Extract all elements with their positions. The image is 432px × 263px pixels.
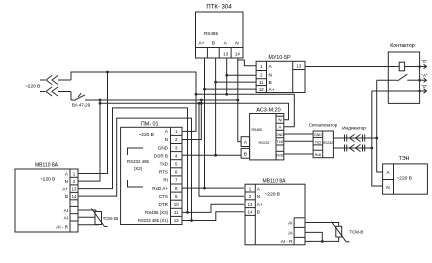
svg-text:ВА 47-29: ВА 47-29 (72, 103, 91, 108)
svg-text:ТЭН: ТЭН (399, 156, 410, 162)
svg-text:МВ110 8А: МВ110 8А (35, 163, 59, 169)
junction neutral at ПМ2 riser (200, 99, 203, 102)
svg-text:N: N (257, 194, 260, 199)
annunciator U4 Сигнализатор with GND TxD RxD RS232 (309, 123, 338, 158)
indicator label Индикатор (342, 126, 366, 132)
wire МВ110-bottom pin2 to neutral (198, 102, 244, 196)
wire phase branch to АС3 A (196, 94, 294, 126)
svg-text:RTS: RTS (159, 170, 168, 175)
wire neutral down to МВ110-left pin 2 (78, 100, 100, 181)
svg-text:Контактор: Контактор (390, 43, 415, 49)
wire МВ110-left AI-R to sensor bottom (78, 224, 98, 226)
svg-text:RS232 485: RS232 485 (127, 159, 150, 164)
contactor coil (388, 62, 419, 71)
svg-text:TxD: TxD (277, 140, 284, 144)
svg-text:13: 13 (72, 187, 77, 192)
svg-text:ПМ- 01: ПМ- 01 (141, 122, 159, 128)
svg-text:~220 В: ~220 В (40, 177, 55, 183)
svg-text:N: N (269, 73, 273, 79)
contactor bottom wire (372, 90, 420, 92)
svg-text:12: 12 (259, 87, 264, 92)
mains label ~220 В (25, 84, 40, 90)
svg-text:МУ10-5Р: МУ10-5Р (268, 55, 291, 61)
controller U1 ПТК-304 with terminals A+ B A N and cells 13 14 (196, 5, 244, 59)
svg-text:RxD A+: RxD A+ (152, 186, 168, 191)
GSM modem U5 ПМ-01 with pins 1-12 and RS232/485 ports (121, 122, 182, 225)
svg-text:DTR: DTR (159, 202, 169, 207)
svg-text:N: N (386, 185, 390, 191)
analog input module U6 МВ110-8А (left) pins 1 2 13 14 AI AI AI-R (15, 163, 78, 233)
wire ПТК N down to АС3 A cell (238, 58, 241, 142)
junction neutral long line at ПМ pin2 riser (200, 102, 203, 105)
mains connector upper chevrons (40, 76, 71, 85)
svg-text:RS232 485 (Х1): RS232 485 (Х1) (138, 218, 169, 223)
wire МВ110-left B wrap line to ПМ pin 12 net (78, 118, 192, 220)
contactor switch contact (377, 74, 420, 81)
wire RS232 TxD АС3 to Сигнализатор (284, 140, 313, 142)
wire МВ110-bottom AI2 down (305, 232, 322, 241)
svg-text:~220 В: ~220 В (265, 191, 280, 197)
svg-text:RxD: RxD (276, 154, 283, 158)
svg-text:A+: A+ (269, 87, 275, 93)
svg-text:A+: A+ (257, 202, 263, 207)
wire neutral from breaker across (87, 99, 238, 101)
wire B branch to МУ pin 11 (216, 81, 257, 83)
svg-text:TxD: TxD (160, 161, 169, 166)
svg-text:“0”: “0” (422, 59, 428, 64)
indicator cable upper connector (345, 134, 365, 141)
wire ПТК A down to phase line (226, 58, 228, 94)
wire МВ110-left AI1 to sensor (78, 210, 96, 212)
svg-text:GND: GND (314, 133, 322, 137)
svg-text:11: 11 (259, 80, 264, 85)
svg-text:ПТК- 304: ПТК- 304 (206, 5, 232, 11)
svg-text:AI: AI (288, 230, 292, 235)
junction A+ to ПМ pin 8 (203, 88, 206, 91)
wire contactor bottom to ТЭН N (372, 91, 383, 186)
temperature sensor RK2 ТСМ-В (332, 222, 364, 242)
svg-text:~220 В: ~220 В (397, 175, 412, 181)
junction wrap A+ at ПМ pin 11 line (186, 211, 189, 214)
svg-text:N: N (278, 118, 281, 123)
junction neutral at x100 (99, 99, 102, 102)
svg-text:AI: AI (288, 220, 292, 225)
output module U2 МУ10-5Р pins 1 2 11 12 (A N B A+) and output cell 13 (256, 55, 305, 93)
svg-text:~220 В: ~220 В (25, 84, 40, 90)
wire phase from breaker input to ПМ-01 pin 1 (71, 72, 196, 131)
contactor K1 box (388, 43, 419, 103)
temperature sensor RK1 ТСМ-1В (92, 209, 119, 227)
svg-text:“А”: “А” (422, 73, 428, 78)
svg-text:AI - R: AI - R (281, 239, 293, 244)
junction A to МУ pin 2 (225, 74, 228, 77)
indicator cable lower wire (333, 147, 373, 150)
svg-text:10: 10 (174, 202, 179, 207)
svg-text:RI: RI (163, 178, 168, 183)
svg-text:12: 12 (174, 218, 179, 223)
svg-text:14: 14 (235, 51, 240, 56)
wire contactor switch down to ТЭН A (377, 80, 383, 172)
wire phase down to МВ110-left pin 1 (78, 72, 108, 174)
indicator cable lower connector (345, 144, 365, 151)
svg-text:B: B (244, 151, 247, 157)
wire ПМ pin 8 RxD A+ line to МВ110-bottom pin 1 (182, 187, 244, 190)
svg-text:GND: GND (158, 145, 169, 150)
wire ПМ pin 12 to МВ110-bottom pin 14 (182, 212, 244, 221)
svg-text:RS485: RS485 (204, 31, 218, 36)
svg-text:B: B (257, 210, 260, 215)
svg-text:A: A (278, 125, 281, 130)
svg-text:A+: A+ (62, 187, 68, 192)
wire ПМ pin 4 DSR B to АС3 B (182, 154, 241, 156)
svg-text:~220 В: ~220 В (139, 132, 154, 138)
wire neutral drop to ПМ-01 pin 2 (182, 100, 201, 140)
svg-text:AI: AI (64, 215, 68, 220)
svg-text:AI - R: AI - R (56, 224, 68, 229)
contactor output arrows with labels 0 А 0 (418, 59, 428, 93)
junction B to МУ pin 11 (214, 81, 217, 84)
interface converter U3 АС3-М:20 with RS485 A B and RS232 GND TxD RxD (241, 108, 284, 160)
svg-text:B: B (269, 80, 272, 86)
svg-text:13: 13 (248, 202, 253, 207)
svg-text:Индикатор: Индикатор (342, 126, 366, 132)
mains connector lower chevrons (40, 87, 71, 96)
analog input module U7 МВ110-8А (bottom) pins 1 2 13 14 AI AI AI-R (245, 179, 305, 245)
wire RS232 GND АС3 to Сигнализатор (284, 133, 313, 135)
svg-text:ТСМ-В: ТСМ-В (350, 230, 364, 235)
junction neutral long-line tap (99, 102, 102, 105)
wire RS485 B from ПТК down to АС3 B level (215, 58, 217, 155)
svg-text:GND: GND (276, 133, 284, 137)
wire RS485 A+ from ПТК to МУ pin 12 (205, 58, 257, 89)
svg-text:МВ110 8А: МВ110 8А (263, 179, 287, 185)
wire МВ110-left AI2 to sensor (78, 216, 95, 218)
svg-text:RS485: RS485 (252, 128, 262, 132)
wire МВ110-bottom AI-R to sensor bottom (305, 237, 339, 241)
svg-text:B: B (65, 194, 68, 199)
junction phase to МВ110-left (106, 71, 109, 74)
svg-text:RxD: RxD (315, 153, 322, 157)
junction phase branch on riser (195, 93, 198, 96)
svg-text:Сигнализатор: Сигнализатор (309, 123, 338, 128)
indicator cable upper wire (333, 137, 378, 140)
wire RS232 RxD АС3 to Сигнализатор (284, 153, 313, 155)
svg-text:АС3-М:20: АС3-М:20 (256, 108, 280, 114)
svg-text:13: 13 (223, 51, 228, 56)
circuit breaker QF1 ВА 47-29 (71, 92, 91, 108)
junction B at ПМ pin 4 line (214, 154, 217, 157)
svg-text:13: 13 (296, 63, 301, 68)
wire N jog branch to МУ pin 1 (238, 60, 256, 66)
svg-text:RS232: RS232 (323, 141, 333, 145)
wire МУ output 13 to contactor coil (305, 66, 388, 68)
svg-text:11: 11 (174, 210, 179, 215)
svg-text:CTS: CTS (159, 194, 168, 199)
svg-text:B: B (212, 40, 215, 46)
svg-text:RS232: RS232 (259, 141, 270, 145)
svg-text:N: N (165, 137, 168, 142)
svg-text:14: 14 (248, 210, 253, 215)
wire neutral long line to АС3 N (100, 103, 289, 119)
heater ТЭН box with terminals A N and ~220 В (383, 156, 428, 194)
junction N on neutral line (236, 99, 239, 102)
svg-text:ТСМ-1В: ТСМ-1В (103, 216, 119, 221)
svg-text:TxD: TxD (315, 140, 322, 144)
junction A on phase line (225, 93, 228, 96)
wire МВ110-bottom AI1 to sensor (305, 223, 339, 227)
svg-text:A+: A+ (198, 40, 204, 46)
junction wrap B at ПМ pin 12 line (190, 219, 193, 222)
svg-text:DSR B: DSR B (154, 153, 168, 158)
wire МВ110-left A+ wrap line to ПМ pin 11 net (78, 108, 188, 212)
svg-text:“0”: “0” (422, 84, 428, 89)
wire A+ riser (204, 89, 206, 188)
wire ПМ pin 11 to МВ110-bottom pin 13 (182, 204, 244, 212)
svg-text:RS485 (Х3): RS485 (Х3) (145, 210, 168, 215)
junction AI2/AI-R (321, 240, 324, 243)
svg-text:AI: AI (64, 208, 68, 213)
wire A branch to МУ pin 2 (227, 74, 256, 76)
svg-text:(Х2): (Х2) (134, 166, 143, 171)
svg-text:N: N (235, 40, 239, 46)
svg-text:N: N (65, 179, 68, 184)
svg-text:14: 14 (72, 194, 77, 199)
